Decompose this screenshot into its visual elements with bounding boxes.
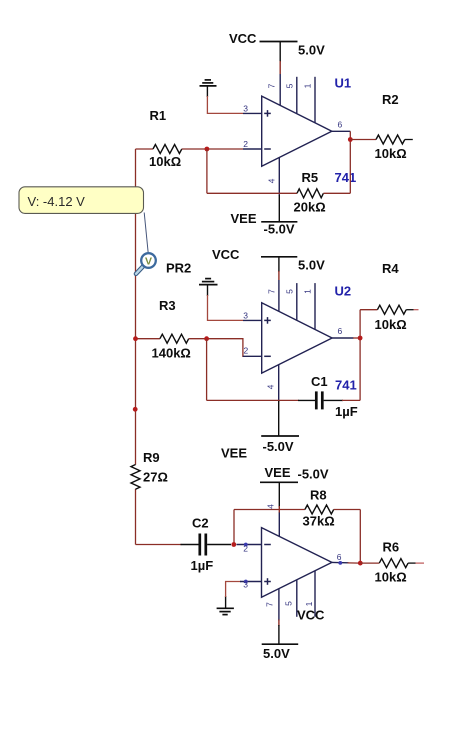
- svg-text:R9: R9: [143, 450, 160, 465]
- svg-text:2: 2: [243, 139, 248, 149]
- power VEE (U1): [278, 195, 280, 222]
- svg-text:10kΩ: 10kΩ: [375, 146, 407, 161]
- svg-text:-5.0V: -5.0V: [264, 222, 295, 237]
- power VCC (U1) symbol bar: [260, 41, 298, 43]
- resistor R9 (vertical): [131, 465, 140, 490]
- svg-text:27Ω: 27Ω: [143, 470, 168, 485]
- svg-text:VEE: VEE: [265, 465, 291, 480]
- svg-text:VCC: VCC: [297, 608, 325, 623]
- probe reading tooltip box: [19, 187, 144, 214]
- resistor R6: [360, 562, 379, 564]
- svg-text:VEE: VEE: [231, 211, 257, 226]
- svg-text:5: 5: [285, 289, 295, 294]
- wire VCC bar to pin 7 U1: [279, 42, 281, 63]
- wire left net to C2: [136, 544, 182, 546]
- svg-text:2: 2: [243, 544, 248, 554]
- wire R3 to pin 2 U2 (jog): [207, 339, 244, 357]
- svg-text:1µF: 1µF: [191, 558, 214, 573]
- svg-text:140kΩ: 140kΩ: [152, 346, 191, 361]
- svg-text:6: 6: [338, 326, 343, 336]
- node stage3 output junction: [358, 561, 363, 566]
- probe PR2 circle: [141, 253, 156, 268]
- svg-text:7: 7: [265, 602, 275, 607]
- ground (stage 1, flipped): [200, 80, 217, 97]
- resistor R8: [234, 509, 305, 511]
- svg-text:VCC: VCC: [212, 247, 240, 262]
- wire feedback row to R5: [207, 192, 297, 194]
- svg-text:-5.0V: -5.0V: [298, 467, 329, 482]
- power VEE (U2): [278, 401, 280, 436]
- resistor R1: [136, 148, 154, 150]
- wire left vertical net: [135, 149, 137, 465]
- svg-text:741: 741: [335, 170, 357, 185]
- power VCC (U2) symbol bar: [261, 256, 297, 258]
- svg-text:5: 5: [285, 83, 295, 88]
- svg-text:1: 1: [303, 289, 313, 294]
- svg-text:6: 6: [337, 552, 342, 562]
- ground (stage 2, flipped): [199, 279, 218, 296]
- svg-text:2: 2: [244, 346, 249, 356]
- svg-text:20kΩ: 20kΩ: [294, 200, 326, 215]
- wire R1 node to pin 2 U1: [207, 148, 243, 150]
- svg-text:V: -4.12 V: V: -4.12 V: [28, 194, 86, 209]
- wire ground to pin3 (stage 3): [226, 582, 241, 598]
- svg-text:C2: C2: [192, 516, 209, 531]
- pin terminal dots (stage 3): [244, 543, 248, 547]
- wire feedback (inverting node down): [206, 149, 208, 193]
- svg-text:R6: R6: [383, 540, 400, 555]
- svg-text:7: 7: [267, 289, 277, 294]
- svg-text:5.0V: 5.0V: [298, 258, 325, 273]
- probe leader line: [144, 213, 148, 254]
- wire VCC bar to pin 7 U2: [278, 257, 280, 272]
- svg-text:R8: R8: [310, 488, 327, 503]
- svg-text:3: 3: [243, 103, 248, 113]
- resistor R2: [350, 139, 376, 141]
- wire ground to pin3 U1: [207, 96, 243, 113]
- op-amp U2: [243, 280, 354, 402]
- wire R8 right leg down to output: [359, 510, 361, 564]
- svg-text:3: 3: [243, 580, 248, 590]
- svg-text:1µF: 1µF: [335, 404, 358, 419]
- wire output vertical (R4 and C1 branches): [359, 310, 361, 401]
- svg-text:VCC: VCC: [229, 31, 257, 46]
- svg-text:4: 4: [267, 178, 277, 183]
- wire R8 left leg down to inverting node: [233, 510, 235, 545]
- svg-text:5.0V: 5.0V: [263, 646, 290, 661]
- svg-text:VEE: VEE: [221, 446, 247, 461]
- svg-text:4: 4: [266, 504, 276, 509]
- node C2 / R8 / pin2 junction: [231, 542, 236, 547]
- ground (stage 3): [217, 596, 234, 615]
- svg-text:3: 3: [243, 310, 248, 320]
- svg-text:PR2: PR2: [166, 261, 191, 276]
- svg-text:U1: U1: [335, 76, 352, 91]
- svg-text:R4: R4: [382, 261, 399, 276]
- node on left net: [133, 407, 138, 412]
- svg-text:U2: U2: [335, 284, 352, 299]
- node left net / R3 junction: [133, 336, 138, 341]
- svg-text:37kΩ: 37kΩ: [303, 514, 335, 529]
- svg-text:10kΩ: 10kΩ: [375, 317, 407, 332]
- svg-text:5: 5: [284, 601, 294, 606]
- probe PR2 magnifier handle: [136, 266, 143, 274]
- capacitor C1: [298, 399, 315, 401]
- svg-text:C1: C1: [311, 374, 328, 389]
- wire U2 feedback down/row: [206, 339, 208, 401]
- node at R1 / feedback junction: [205, 147, 210, 152]
- svg-text:R3: R3: [159, 298, 176, 313]
- svg-text:741: 741: [335, 378, 357, 393]
- wire U2 output to junction: [353, 337, 360, 339]
- capacitor C2: [181, 544, 199, 546]
- svg-text:10kΩ: 10kΩ: [149, 154, 181, 169]
- node U2 output junction: [358, 336, 363, 341]
- svg-text:6: 6: [338, 120, 343, 130]
- svg-text:4: 4: [266, 384, 276, 389]
- svg-text:R2: R2: [382, 92, 399, 107]
- svg-text:1: 1: [303, 83, 313, 88]
- wire stage3 output to junction: [348, 562, 361, 564]
- svg-text:7: 7: [267, 83, 277, 88]
- svg-text:R5: R5: [302, 170, 319, 185]
- op-amp U1: [243, 74, 350, 196]
- wire ground to pin3 U2: [208, 295, 244, 320]
- resistor R5: [297, 189, 323, 198]
- svg-text:R1: R1: [150, 108, 167, 123]
- svg-text:-5.0V: -5.0V: [263, 439, 294, 454]
- node output/R2 junction: [348, 137, 353, 142]
- svg-text:V: V: [145, 256, 152, 268]
- svg-text:1: 1: [304, 601, 314, 606]
- wire VEE bar to pin 4 (stage 3): [278, 482, 280, 507]
- resistor R3: [136, 338, 160, 340]
- resistor R4: [360, 309, 377, 311]
- node R3 / feedback junction: [204, 336, 209, 341]
- svg-text:10kΩ: 10kΩ: [375, 570, 407, 585]
- svg-text:5.0V: 5.0V: [298, 43, 325, 58]
- op-amp stage 3 (flipped): [237, 513, 349, 621]
- wire U1 output down: [349, 131, 351, 193]
